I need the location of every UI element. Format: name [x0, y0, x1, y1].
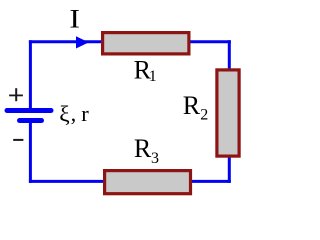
svg-text:3: 3 — [151, 150, 159, 167]
svg-text:R: R — [183, 91, 201, 120]
svg-text:1: 1 — [149, 68, 157, 85]
svg-text:ξ: ξ — [59, 101, 69, 126]
svg-text:I: I — [69, 5, 80, 34]
svg-text:,: , — [71, 101, 77, 126]
svg-text:r: r — [81, 101, 89, 126]
svg-text:2: 2 — [200, 107, 208, 124]
svg-text:R: R — [134, 134, 152, 163]
